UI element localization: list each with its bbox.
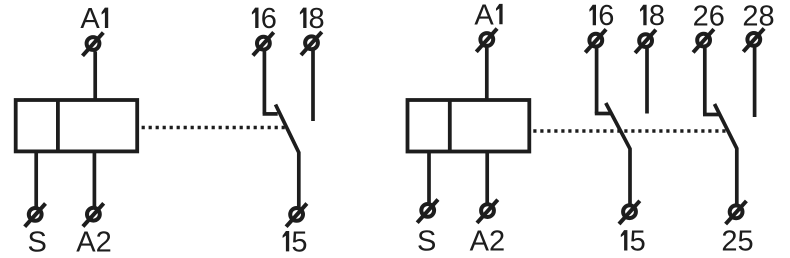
- svg-text:S: S: [417, 226, 436, 258]
- svg-text:A2: A2: [470, 226, 505, 258]
- svg-text:5: 5: [630, 226, 646, 258]
- svg-text:26: 26: [693, 0, 725, 32]
- svg-text:6: 6: [598, 0, 614, 32]
- svg-text:8: 8: [309, 3, 325, 35]
- svg-text:6: 6: [261, 3, 277, 35]
- svg-text:8: 8: [649, 0, 665, 32]
- svg-text:S: S: [28, 227, 47, 258]
- svg-text:5: 5: [291, 226, 307, 258]
- svg-text:A: A: [80, 3, 100, 35]
- svg-text:25: 25: [721, 225, 753, 257]
- svg-text:28: 28: [742, 0, 774, 32]
- svg-text:A: A: [474, 0, 494, 31]
- svg-text:A2: A2: [76, 227, 111, 258]
